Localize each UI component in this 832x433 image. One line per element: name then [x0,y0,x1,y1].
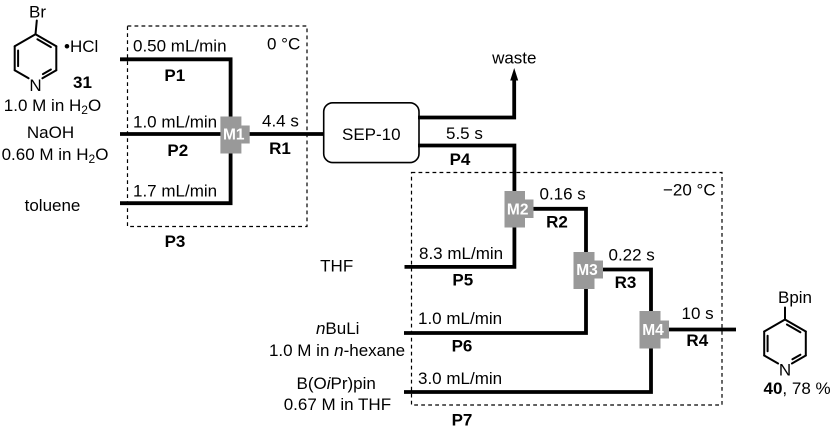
mixer M2 [505,191,534,228]
svg-text:NaOH: NaOH [27,123,74,142]
wire P4 [405,146,515,267]
svg-text:N: N [779,361,791,380]
svg-text:3.0 mL/min: 3.0 mL/min [418,369,502,388]
svg-text:N: N [29,76,41,95]
svg-text:P6: P6 [452,337,473,356]
svg-text:•HCl: •HCl [64,37,98,56]
wire R1 [240,132,325,136]
pyridine ring of product 40 [764,320,806,364]
wire P7 borate feed [404,347,651,392]
svg-text:R2: R2 [546,213,568,232]
svg-text:0 °C: 0 °C [267,35,300,54]
wire R4 product stream [661,328,736,332]
pyridine ring of reactant 31 [15,34,57,78]
svg-text:40, 78 %: 40, 78 % [764,379,831,398]
svg-text:M4: M4 [642,322,664,339]
svg-text:P1: P1 [164,66,185,85]
svg-text:10 s: 10 s [682,304,714,323]
svg-text:4.4 s: 4.4 s [262,112,299,131]
separator SEP-10 [324,103,419,163]
svg-text:0.22 s: 0.22 s [609,246,655,265]
mixer M3 [574,252,604,289]
svg-text:nBuLi: nBuLi [316,319,360,338]
cooling zone box -20 C [412,173,723,406]
cooling zone box 0 C [128,26,308,227]
svg-text:0.50 mL/min: 0.50 mL/min [133,37,227,56]
svg-text:0.16 s: 0.16 s [540,185,586,204]
svg-text:1.0 mL/min: 1.0 mL/min [133,113,217,132]
svg-text:P3: P3 [165,232,186,251]
svg-text:P4: P4 [450,150,471,169]
wire to waste [418,81,514,118]
svg-text:THF: THF [320,257,353,276]
svg-text:1.0 mL/min: 1.0 mL/min [418,309,502,328]
wire P2 [120,132,232,136]
svg-text:P5: P5 [452,271,473,290]
wire P1 [120,59,231,134]
svg-text:R3: R3 [615,273,637,292]
svg-text:5.5 s: 5.5 s [446,124,483,143]
svg-text:−20 °C: −20 °C [663,181,716,200]
svg-text:M1: M1 [223,127,245,144]
svg-text:R4: R4 [686,331,708,350]
svg-text:1.7 mL/min: 1.7 mL/min [133,182,217,201]
svg-text:31: 31 [73,73,92,92]
svg-text:P7: P7 [452,411,473,430]
svg-text:R1: R1 [269,139,291,158]
svg-text:1.0 M in n-hexane: 1.0 M in n-hexane [269,341,405,360]
wire P3 [120,134,231,203]
svg-text:B(OiPr)pin: B(OiPr)pin [297,374,376,393]
mixer M1 [220,117,249,154]
svg-text:P2: P2 [167,141,188,160]
svg-text:8.3 mL/min: 8.3 mL/min [419,244,503,263]
svg-text:Br: Br [29,3,46,22]
wire P6 nBuLi feed [404,288,586,333]
svg-text:SEP-10: SEP-10 [342,125,401,144]
wire R3 [595,270,651,316]
svg-text:Bpin: Bpin [778,288,812,307]
svg-text:toluene: toluene [25,196,81,215]
svg-text:waste: waste [491,49,536,68]
wire R2 [525,209,586,255]
waste arrowhead [510,68,518,81]
svg-text:0.67 M in THF: 0.67 M in THF [284,395,391,414]
Br substituent bond of 31 [36,21,37,35]
mixer M4 [640,311,670,349]
svg-text:M3: M3 [576,262,598,279]
Bpin substituent bond of 40 [784,308,786,320]
svg-text:M2: M2 [507,201,529,218]
